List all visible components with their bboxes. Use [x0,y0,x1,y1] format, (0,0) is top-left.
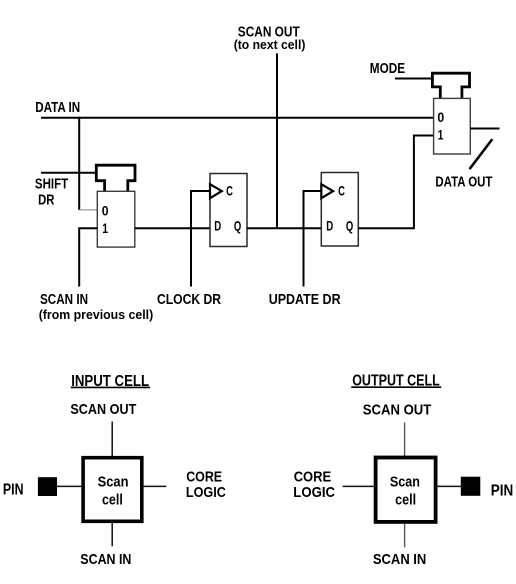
svg-text:SCAN IN: SCAN IN [80,551,131,568]
wire: input cell box to core logic [143,485,166,487]
wire: MODE select into mux U2 hat [395,78,432,80]
wire: scan out stub above output cell [404,423,406,457]
svg-text:Q: Q [234,219,242,234]
svg-text:SCAN IN: SCAN IN [40,292,88,308]
wire: UPDATE DR up and into FF U4 clock [304,191,322,287]
wire: scan in stub below input cell [111,523,113,546]
node CORE LOGIC label (output cell) [293,469,335,501]
wire: SCAN OUT vertical net [276,53,278,228]
wire: core logic to output cell box [343,485,376,487]
svg-text:MODE: MODE [370,61,405,77]
svg-text:CLOCK DR: CLOCK DR [157,292,222,308]
wire: stub into mux U1 pin 0 (faint) [79,209,97,211]
mux U2 body [434,98,471,154]
wire: CLOCK DR up and into FF U3 clock [191,191,210,287]
wire: SCAN IN up and into mux U1 pin 1 [79,228,97,286]
svg-text:0: 0 [102,204,109,219]
wire: mux U1 output to FF U3 D input [135,227,210,229]
wire: DATA IN horizontal bus to mux U2 pin 0 [41,117,434,119]
wire: pad to input cell box [57,485,81,487]
svg-text:SCAN IN: SCAN IN [373,551,426,568]
flip-flop U4 body [321,173,358,247]
svg-text:C: C [226,184,233,199]
svg-text:(to next cell): (to next cell) [234,37,306,52]
pin pad square (input cell) [38,477,57,496]
block: output Scan cell box [376,458,436,522]
svg-text:SCAN OUT: SCAN OUT [70,401,136,418]
svg-text:Scan: Scan [390,474,420,490]
svg-text:UPDATE DR: UPDATE DR [269,292,341,308]
wire: SHIFT DR select into mux U1 hat [41,172,96,174]
svg-text:(from previous cell): (from previous cell) [39,307,154,322]
svg-text:Scan: Scan [98,474,129,490]
title INPUT CELL (underlined) [71,373,150,390]
title OUTPUT CELL (underlined) [351,373,441,390]
svg-text:DATA OUT: DATA OUT [435,175,492,191]
svg-text:PIN: PIN [491,482,514,499]
svg-text:LOGIC: LOGIC [186,485,226,501]
svg-text:D: D [326,219,333,234]
wire: FF U4 Q up to mux U2 pin 1 [358,136,433,229]
svg-text:DR: DR [38,193,55,209]
svg-text:C: C [338,184,345,199]
svg-text:D: D [214,219,221,234]
wire: FF U3 Q to FF U4 D [247,227,321,229]
block: input Scan cell box [83,458,142,522]
node SCAN IN label [39,292,154,322]
flip-flop U3 clock triangle [210,184,222,198]
mux U2 select hat [432,73,469,98]
svg-text:CORE: CORE [186,469,222,485]
node CORE LOGIC label (input cell) [186,469,226,501]
flip-flop U3 body [210,174,247,247]
svg-text:CORE: CORE [294,469,332,485]
svg-text:cell: cell [102,492,123,508]
scan-path slash mark [470,139,493,169]
svg-text:LOGIC: LOGIC [293,485,335,501]
mux U1 select hat [96,165,135,191]
flip-flop U4 clock triangle [321,184,333,198]
svg-text:1: 1 [102,221,108,236]
svg-text:PIN: PIN [3,481,24,498]
wire: mux U2 output DATA OUT [470,128,499,130]
wire: output cell box to pad [437,485,461,487]
svg-text:SHIFT: SHIFT [35,177,69,193]
svg-text:1: 1 [438,127,444,142]
svg-text:cell: cell [395,493,416,509]
node SCAN OUT (to next cell) label [234,25,306,53]
mux U1 body [97,191,135,247]
svg-text:DATA IN: DATA IN [35,100,80,116]
svg-text:Q: Q [346,219,354,234]
pin pad square (output cell) [461,477,481,496]
node SHIFT DR label [35,177,69,209]
wire: DATA IN branch down to mux U1 [78,117,80,210]
svg-text:0: 0 [437,110,444,125]
svg-text:SCAN OUT: SCAN OUT [363,401,432,418]
wire: scan in stub below output cell [404,524,406,548]
wire: scan out stub above input cell [111,422,113,457]
